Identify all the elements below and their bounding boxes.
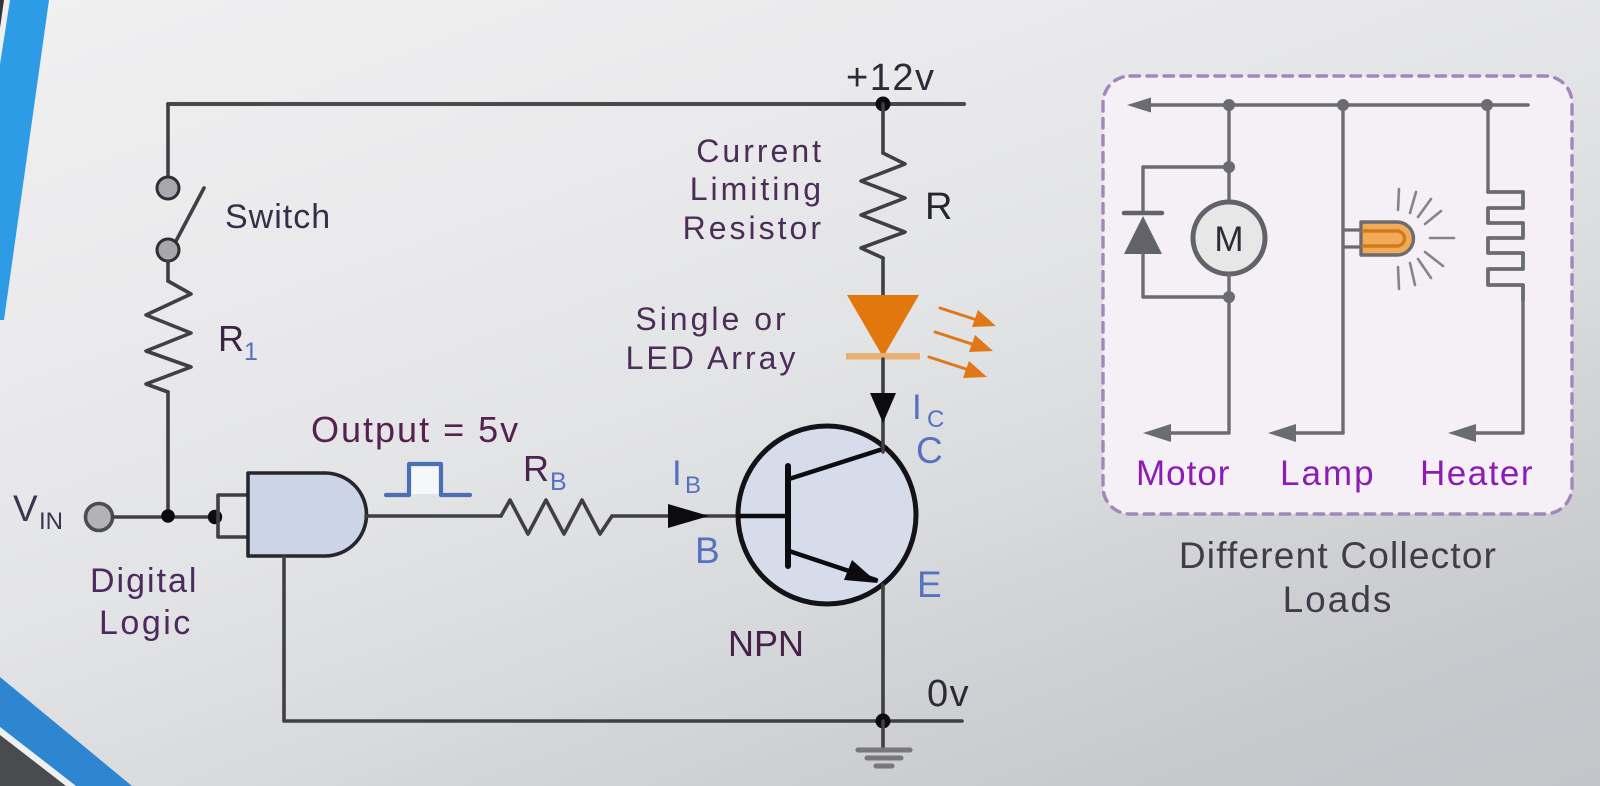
LED D1 triangle (847, 295, 919, 357)
wire RB to base (612, 514, 739, 518)
svg-text:C: C (916, 430, 943, 471)
node rail lamp (1337, 99, 1349, 111)
heater element meander (1488, 192, 1523, 300)
svg-text:Current: Current (696, 133, 824, 169)
wire emitter to 0v rail (881, 585, 885, 721)
LED D1 cathode bar (846, 353, 920, 360)
switch SW1 blade (176, 188, 204, 241)
svg-text:R: R (523, 448, 549, 489)
lamp leads (1343, 228, 1363, 231)
wire motor branch lower (1162, 274, 1229, 433)
top-left blue stripe (0, 0, 49, 320)
wire panel top rail (1140, 103, 1528, 106)
svg-text:Heater: Heater (1420, 454, 1534, 493)
svg-text:R: R (925, 186, 952, 228)
wire R to LED (881, 258, 885, 300)
lamp L1 filament (1363, 231, 1405, 246)
wire diode branch lower (1143, 254, 1229, 297)
wire R top feed (881, 104, 885, 153)
svg-text:M: M (1214, 220, 1243, 259)
node rail motor (1223, 99, 1235, 111)
LED ray 1 (940, 308, 980, 321)
arrow motor out (1143, 424, 1171, 442)
svg-text:I: I (672, 454, 682, 493)
node +12v junction (876, 97, 891, 112)
svg-text:IN: IN (39, 508, 63, 535)
switch SW1 lower contact (157, 239, 179, 261)
wire switch top (166, 104, 170, 177)
arrow IB current (668, 504, 709, 528)
transistor Q1 base wire (740, 514, 788, 519)
svg-text:Lamp: Lamp (1280, 454, 1376, 493)
LED ray 3 (929, 357, 969, 370)
wire 0v rail right (883, 719, 962, 723)
arrow IC current (870, 393, 896, 423)
arrow panel rail left (1127, 98, 1151, 113)
node diode tap upper (1223, 161, 1235, 173)
LED ray 2 (935, 332, 975, 345)
node 0v junction (876, 714, 891, 729)
svg-text:Resistor: Resistor (683, 210, 824, 246)
motor M1 body (1193, 202, 1265, 274)
wire diode branch upper (1143, 167, 1229, 212)
diode D2 triangle (1124, 216, 1162, 254)
node rail heater (1481, 99, 1493, 111)
svg-text:Loads: Loads (1283, 579, 1394, 620)
top-left dark sliver (0, 0, 4, 28)
loads panel dashed box (1103, 76, 1572, 514)
svg-text:+12v: +12v (846, 57, 935, 99)
svg-text:Output = 5v: Output = 5v (311, 409, 520, 450)
svg-text:Motor: Motor (1136, 454, 1230, 493)
svg-text:0v: 0v (927, 673, 970, 715)
svg-text:Digital: Digital (90, 562, 198, 600)
wire Vin to gate input (113, 515, 217, 519)
arrow heater out (1448, 424, 1476, 442)
transistor Q1 base bar (785, 466, 791, 566)
transistor Q1 body (738, 426, 916, 604)
resistor RB (501, 500, 612, 534)
svg-text:C: C (927, 406, 944, 433)
svg-text:I: I (912, 388, 922, 427)
gate U1 (AND) body (248, 473, 367, 556)
pulse waveform symbol (386, 464, 470, 495)
transistor Q1 collector stroke (789, 448, 886, 479)
wire R1 to Vin node (166, 392, 170, 516)
bottom-left white sliver (0, 727, 76, 786)
switch SW1 upper contact (157, 177, 179, 199)
svg-text:1: 1 (244, 338, 258, 366)
wire lamp branch (1341, 105, 1344, 433)
wire gate to 0v rail (284, 557, 883, 721)
bottom-left blue stripe (0, 677, 132, 786)
svg-text:B: B (695, 530, 720, 571)
svg-text:Switch: Switch (225, 198, 331, 236)
transistor Q1 emitter arrowhead (844, 560, 878, 583)
svg-text:Logic: Logic (99, 604, 193, 642)
wire top rail +12v (168, 102, 964, 106)
wire LED to collector (881, 359, 885, 452)
node gate input junction (208, 510, 222, 524)
svg-text:B: B (550, 468, 567, 496)
ground bars (858, 748, 910, 753)
wire gate input bracket (218, 495, 248, 537)
diode D2 cathode bar (1124, 211, 1162, 216)
svg-text:V: V (13, 488, 38, 529)
svg-text:NPN: NPN (728, 623, 804, 664)
pulse waveform fill (409, 464, 441, 494)
svg-text:E: E (917, 564, 942, 605)
svg-text:Different Collector: Different Collector (1179, 535, 1497, 576)
wire gate output (366, 514, 501, 518)
wire motor branch upper (1227, 105, 1230, 202)
node diode tap lower (1223, 291, 1235, 303)
wire switch to R1 (166, 261, 170, 281)
svg-text:R: R (218, 318, 244, 359)
svg-text:Single or: Single or (635, 301, 788, 337)
lamp L1 bulb (1361, 222, 1414, 255)
arrow lamp out (1287, 431, 1343, 434)
bottom-left dark corner (0, 735, 66, 786)
node R1/Vin junction (161, 509, 175, 523)
wire heater branch upper (1486, 105, 1489, 192)
terminal Vin (86, 504, 113, 531)
svg-text:B: B (685, 472, 701, 499)
svg-text:Limiting: Limiting (690, 171, 824, 207)
svg-text:LED Array: LED Array (626, 340, 799, 376)
wire heater branch lower (1467, 300, 1523, 433)
resistor R1 (146, 281, 191, 392)
ground stub (881, 721, 885, 748)
resistor R (861, 153, 905, 258)
transistor Q1 emitter stroke (789, 551, 876, 580)
lamp rays (1398, 189, 1454, 289)
